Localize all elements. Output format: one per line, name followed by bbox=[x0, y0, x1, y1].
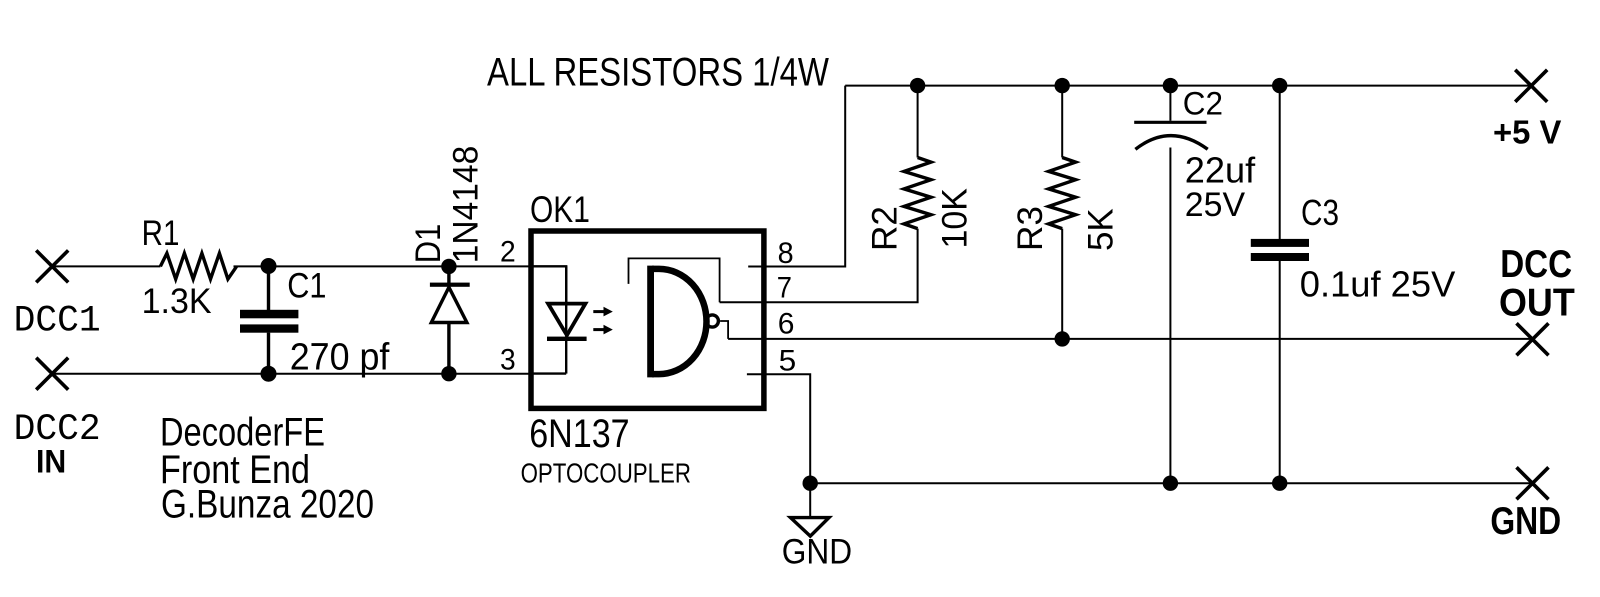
resistor R1 bbox=[160, 253, 236, 279]
svg-text:1.3K: 1.3K bbox=[142, 282, 212, 321]
svg-text:DCC1: DCC1 bbox=[14, 300, 101, 342]
node junction R3 bottom bbox=[1055, 331, 1070, 346]
node junction D1 bottom bbox=[441, 366, 456, 381]
wire DCC1 to R1 bbox=[52, 265, 160, 267]
svg-text:R1: R1 bbox=[142, 214, 180, 253]
node junction C3 top bbox=[1272, 78, 1287, 93]
svg-text:5K: 5K bbox=[1082, 208, 1121, 251]
svg-text:DCC: DCC bbox=[1500, 243, 1572, 286]
terminal X +5V bbox=[1515, 70, 1547, 102]
svg-text:C3: C3 bbox=[1301, 192, 1339, 233]
svg-text:+5 V: +5 V bbox=[1493, 114, 1562, 152]
svg-text:10K: 10K bbox=[935, 188, 974, 248]
svg-text:3: 3 bbox=[500, 343, 516, 376]
svg-text:C2: C2 bbox=[1183, 85, 1223, 121]
svg-text:6: 6 bbox=[778, 308, 795, 341]
node junction R2 top bbox=[910, 78, 925, 93]
svg-text:G.Bunza 2020: G.Bunza 2020 bbox=[161, 483, 374, 527]
LED light arrow 2 bbox=[593, 325, 613, 335]
svg-text:IN: IN bbox=[36, 443, 66, 480]
node junction C3 bottom bbox=[1272, 476, 1287, 491]
logic gate inside OK1 bbox=[651, 266, 719, 378]
svg-text:270 pf: 270 pf bbox=[290, 336, 390, 378]
svg-text:R2: R2 bbox=[866, 206, 905, 251]
svg-text:D1: D1 bbox=[409, 224, 448, 264]
node junction C2 top bbox=[1163, 78, 1178, 93]
svg-text:5: 5 bbox=[779, 344, 797, 377]
terminal X DCC2 bbox=[36, 358, 68, 390]
svg-text:2: 2 bbox=[500, 235, 516, 268]
wire pin8 to top rail bbox=[748, 86, 845, 267]
svg-text:1N4148: 1N4148 bbox=[446, 146, 485, 264]
svg-text:GND: GND bbox=[782, 533, 852, 572]
capacitor C3 bbox=[1251, 86, 1309, 484]
svg-text:OK1: OK1 bbox=[530, 189, 590, 230]
svg-text:0.1uf 25V: 0.1uf 25V bbox=[1300, 264, 1456, 305]
svg-text:8: 8 bbox=[778, 237, 794, 270]
svg-text:GND: GND bbox=[1490, 500, 1561, 543]
gate input notch wire bbox=[629, 258, 720, 302]
svg-text:R3: R3 bbox=[1011, 206, 1050, 251]
svg-text:22uf: 22uf bbox=[1185, 150, 1256, 191]
node junction C1 bottom bbox=[261, 366, 277, 382]
terminal X DCC OUT bbox=[1517, 323, 1549, 355]
node junction GND corner bbox=[803, 476, 818, 491]
wire pin7 to R2 bbox=[720, 229, 918, 303]
wire pin5 to ground rail bbox=[747, 374, 810, 483]
wire pin2 internal to LED bbox=[531, 266, 566, 303]
LED diode inside OK1 bbox=[547, 266, 587, 373]
capacitor C1 bbox=[240, 266, 298, 374]
top +5V rail bbox=[845, 85, 1531, 87]
svg-text:25V: 25V bbox=[1185, 186, 1246, 224]
node junction C2 bottom bbox=[1163, 476, 1178, 491]
terminal X DCC1 bbox=[36, 250, 68, 282]
svg-text:6N137: 6N137 bbox=[529, 412, 629, 456]
node junction R3 top bbox=[1055, 78, 1070, 93]
svg-text:ALL RESISTORS 1/4W: ALL RESISTORS 1/4W bbox=[487, 51, 830, 95]
svg-text:OPTOCOUPLER: OPTOCOUPLER bbox=[521, 458, 691, 489]
wire R1 to OK1 pin2 bbox=[234, 265, 532, 267]
ground symbol bbox=[791, 483, 830, 536]
node junction C1 top bbox=[261, 258, 277, 274]
svg-text:OUT: OUT bbox=[1499, 282, 1575, 325]
wire pin6 from gate bubble bbox=[720, 321, 728, 339]
resistor R3 bbox=[1049, 86, 1076, 339]
resistor R2 bbox=[904, 86, 931, 229]
svg-text:7: 7 bbox=[777, 271, 792, 304]
terminal X GND bbox=[1517, 467, 1549, 499]
wire DCC2 to OK1 pin3 bbox=[52, 373, 531, 375]
GND rail bbox=[810, 482, 1532, 484]
node junction D1 top bbox=[441, 259, 456, 274]
LED light arrow 1 bbox=[593, 307, 613, 317]
diode D1 bbox=[430, 266, 470, 373]
wire LED to pin3 internal bbox=[531, 372, 566, 374]
capacitor C2 polarized bbox=[1134, 86, 1208, 484]
optocoupler OK1 box bbox=[531, 231, 764, 408]
DCC OUT wire bbox=[728, 338, 1532, 340]
svg-text:C1: C1 bbox=[287, 266, 326, 305]
